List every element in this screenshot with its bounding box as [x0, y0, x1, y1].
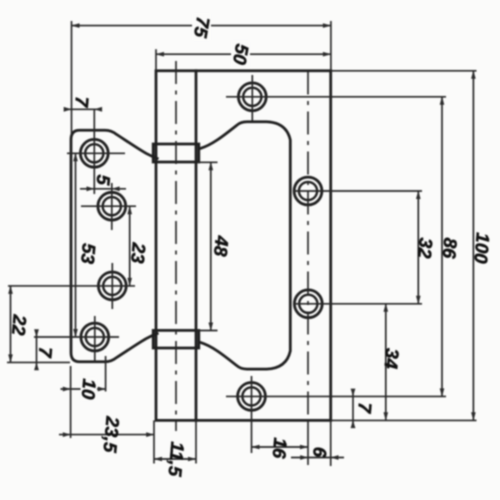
svg-text:34: 34: [380, 347, 403, 369]
svg-text:86: 86: [439, 237, 462, 260]
svg-text:23: 23: [127, 241, 150, 265]
svg-text:16: 16: [269, 437, 292, 460]
svg-text:11,5: 11,5: [164, 441, 188, 478]
svg-text:100: 100: [470, 232, 494, 265]
svg-text:22: 22: [8, 313, 31, 337]
svg-text:10: 10: [78, 378, 101, 401]
svg-text:48: 48: [210, 234, 233, 258]
svg-text:53: 53: [77, 242, 100, 265]
svg-text:32: 32: [414, 237, 437, 260]
svg-text:23,5: 23,5: [99, 415, 123, 454]
